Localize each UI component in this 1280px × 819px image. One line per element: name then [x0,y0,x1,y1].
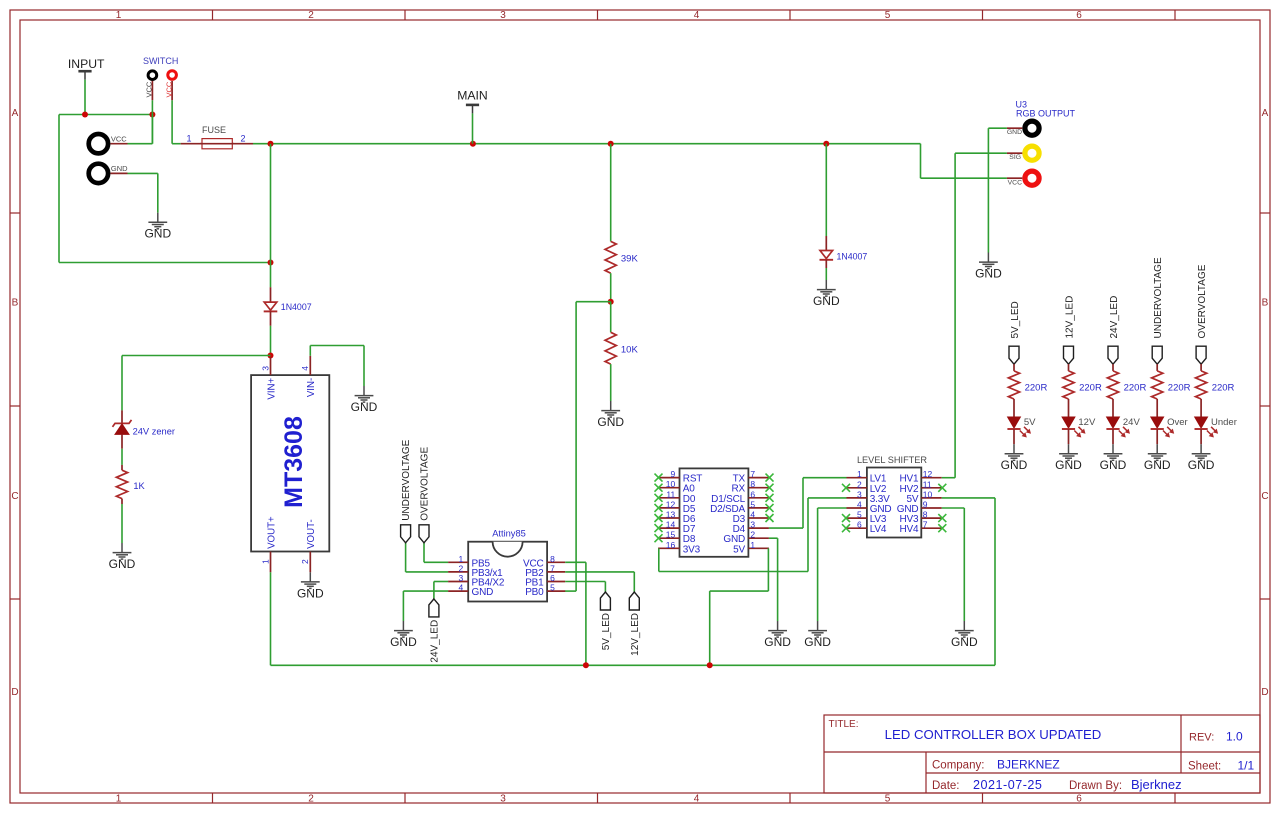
svg-text:5V: 5V [1024,417,1036,428]
svg-text:GND: GND [1144,458,1171,472]
svg-text:4: 4 [857,500,862,510]
svg-text:VCC: VCC [1008,179,1022,186]
svg-text:SWITCH: SWITCH [143,56,179,66]
svg-text:D: D [11,687,18,698]
svg-text:220R: 220R [1025,382,1048,393]
svg-text:D: D [1261,687,1268,698]
svg-text:OVERVOLTAGE: OVERVOLTAGE [1197,264,1208,338]
svg-text:FUSE: FUSE [202,125,226,135]
svg-text:OVERVOLTAGE: OVERVOLTAGE [420,447,431,521]
svg-text:2: 2 [750,530,755,540]
svg-text:BJERKNEZ: BJERKNEZ [997,757,1060,771]
svg-text:11: 11 [666,489,675,499]
svg-text:1/1: 1/1 [1238,758,1255,772]
svg-text:LED CONTROLLER BOX UPDATED: LED CONTROLLER BOX UPDATED [885,727,1102,742]
svg-text:14: 14 [666,520,676,530]
svg-text:Drawn By:: Drawn By: [1069,780,1122,792]
svg-text:GND: GND [472,587,494,598]
svg-text:B: B [12,298,19,309]
svg-text:1: 1 [260,559,270,564]
svg-text:7: 7 [750,469,755,479]
svg-text:GND: GND [109,557,136,571]
svg-text:2: 2 [308,793,314,804]
svg-text:3: 3 [500,10,506,21]
svg-text:39K: 39K [621,253,639,264]
svg-text:GND: GND [1055,458,1082,472]
svg-text:15: 15 [666,530,676,540]
svg-text:10: 10 [666,479,676,489]
svg-text:10: 10 [923,489,933,499]
svg-text:2021-07-25: 2021-07-25 [973,778,1042,792]
svg-text:3: 3 [260,366,270,371]
svg-text:GND: GND [1007,129,1022,136]
svg-text:6: 6 [750,489,755,499]
svg-text:A: A [1262,108,1269,119]
svg-text:24V_LED: 24V_LED [1109,296,1120,339]
svg-text:GND: GND [813,294,840,308]
svg-text:VOUT-: VOUT- [306,519,317,549]
svg-text:5: 5 [885,10,891,21]
svg-text:GND: GND [804,635,831,649]
svg-text:Bjerknez: Bjerknez [1131,777,1182,792]
svg-text:1: 1 [116,10,122,21]
svg-text:1N4007: 1N4007 [281,302,312,312]
svg-text:3: 3 [857,489,862,499]
svg-text:GND: GND [111,164,128,173]
svg-text:10K: 10K [621,345,639,356]
svg-text:4: 4 [750,510,755,520]
svg-text:4: 4 [694,10,700,21]
svg-text:UNDERVOLTAGE: UNDERVOLTAGE [401,439,412,520]
svg-text:GND: GND [1001,458,1028,472]
svg-text:8: 8 [550,554,555,564]
svg-text:220R: 220R [1124,382,1147,393]
svg-text:VCC: VCC [111,134,127,143]
svg-text:GND: GND [1188,458,1215,472]
svg-text:VOUT+: VOUT+ [266,516,277,549]
svg-text:Sheet:: Sheet: [1188,760,1221,772]
svg-text:8: 8 [923,510,928,520]
svg-text:1.0: 1.0 [1226,730,1243,744]
svg-text:GND: GND [597,415,624,429]
svg-text:3: 3 [750,520,755,530]
svg-text:GND: GND [1100,458,1127,472]
svg-text:12: 12 [923,469,933,479]
svg-text:1: 1 [750,540,755,550]
svg-text:1N4007: 1N4007 [837,251,868,261]
svg-text:24V: 24V [1123,417,1141,428]
svg-text:1: 1 [116,793,122,804]
svg-text:INPUT: INPUT [68,57,105,71]
svg-text:1: 1 [458,554,463,564]
svg-text:GND: GND [390,635,417,649]
svg-text:12: 12 [666,499,676,509]
svg-text:VCC: VCC [164,81,173,97]
svg-text:5V_LED: 5V_LED [601,613,612,650]
svg-text:12V: 12V [1078,417,1096,428]
svg-text:MAIN: MAIN [457,88,487,102]
svg-text:3: 3 [458,573,463,583]
svg-text:2: 2 [300,559,310,564]
svg-text:A: A [12,108,19,119]
svg-text:6: 6 [550,573,555,583]
svg-text:VIN+: VIN+ [266,377,277,399]
svg-text:5V_LED: 5V_LED [1010,301,1021,338]
svg-text:UNDERVOLTAGE: UNDERVOLTAGE [1153,257,1164,338]
svg-text:220R: 220R [1168,382,1191,393]
svg-text:6: 6 [1076,793,1082,804]
svg-text:6: 6 [857,520,862,530]
svg-text:MT3608: MT3608 [280,416,308,508]
svg-text:Under: Under [1211,417,1237,428]
svg-text:13: 13 [666,510,676,520]
svg-text:GND: GND [764,635,791,649]
svg-text:7: 7 [550,563,555,573]
svg-text:5: 5 [885,793,891,804]
svg-text:11: 11 [923,479,932,489]
svg-text:Date:: Date: [932,780,960,792]
svg-text:GND: GND [975,267,1002,281]
svg-text:9: 9 [923,500,928,510]
svg-text:GND: GND [297,586,324,600]
svg-text:LV4: LV4 [870,524,887,535]
svg-text:B: B [1262,298,1269,309]
svg-text:16: 16 [666,540,676,550]
svg-text:LEVEL SHIFTER: LEVEL SHIFTER [857,455,927,465]
svg-text:5V: 5V [733,544,745,555]
svg-text:7: 7 [923,520,928,530]
svg-text:9: 9 [670,469,675,479]
svg-text:6: 6 [1076,10,1082,21]
svg-text:PB0: PB0 [525,587,544,598]
svg-text:3: 3 [500,793,506,804]
svg-text:Company:: Company: [932,760,984,772]
svg-text:12V_LED: 12V_LED [630,613,641,656]
svg-text:12V_LED: 12V_LED [1064,296,1075,339]
svg-text:2: 2 [308,10,314,21]
svg-text:VCC: VCC [145,81,154,97]
svg-text:HV4: HV4 [900,524,919,535]
svg-text:220R: 220R [1079,382,1102,393]
svg-text:1K: 1K [133,481,145,491]
svg-text:Attiny85: Attiny85 [492,528,526,538]
svg-text:C: C [11,491,18,502]
svg-text:SIG: SIG [1009,154,1021,161]
svg-text:24V_LED: 24V_LED [430,620,441,663]
svg-text:GND: GND [951,635,978,649]
svg-text:GND: GND [144,227,171,241]
svg-text:2: 2 [458,563,463,573]
svg-text:VIN-: VIN- [306,378,317,397]
svg-text:C: C [1261,491,1268,502]
svg-text:5: 5 [857,510,862,520]
svg-text:RGB OUTPUT: RGB OUTPUT [1016,109,1076,119]
svg-text:3V3: 3V3 [683,544,701,555]
svg-text:2: 2 [240,134,245,144]
svg-text:Over: Over [1167,417,1188,428]
svg-text:5: 5 [550,583,555,593]
svg-text:4: 4 [300,366,310,371]
svg-text:REV:: REV: [1189,732,1214,744]
svg-text:24V zener: 24V zener [133,426,175,436]
svg-text:4: 4 [694,793,700,804]
svg-text:TITLE:: TITLE: [829,719,859,730]
svg-text:1: 1 [186,134,191,144]
svg-text:2: 2 [857,479,862,489]
svg-text:8: 8 [750,479,755,489]
svg-text:GND: GND [351,400,378,414]
svg-text:5: 5 [750,499,755,509]
svg-text:1: 1 [857,469,862,479]
svg-text:220R: 220R [1212,382,1235,393]
svg-text:4: 4 [458,583,463,593]
